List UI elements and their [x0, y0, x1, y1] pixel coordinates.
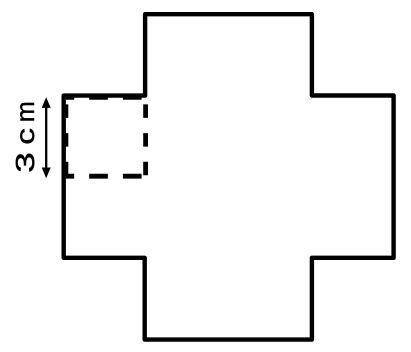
dashed square bottom side [66, 174, 146, 179]
cross-shaped polygon outline [64, 14, 394, 339]
dashed square top side [66, 95, 146, 100]
dashed square left side [64, 97, 69, 176]
dashed square right side [143, 97, 148, 176]
dimension arrow top head [42, 97, 51, 108]
dimension arrow bottom head [42, 168, 51, 179]
svg-text:3 c m: 3 c m [12, 101, 40, 173]
dimension arrow shaft [45, 106, 47, 170]
